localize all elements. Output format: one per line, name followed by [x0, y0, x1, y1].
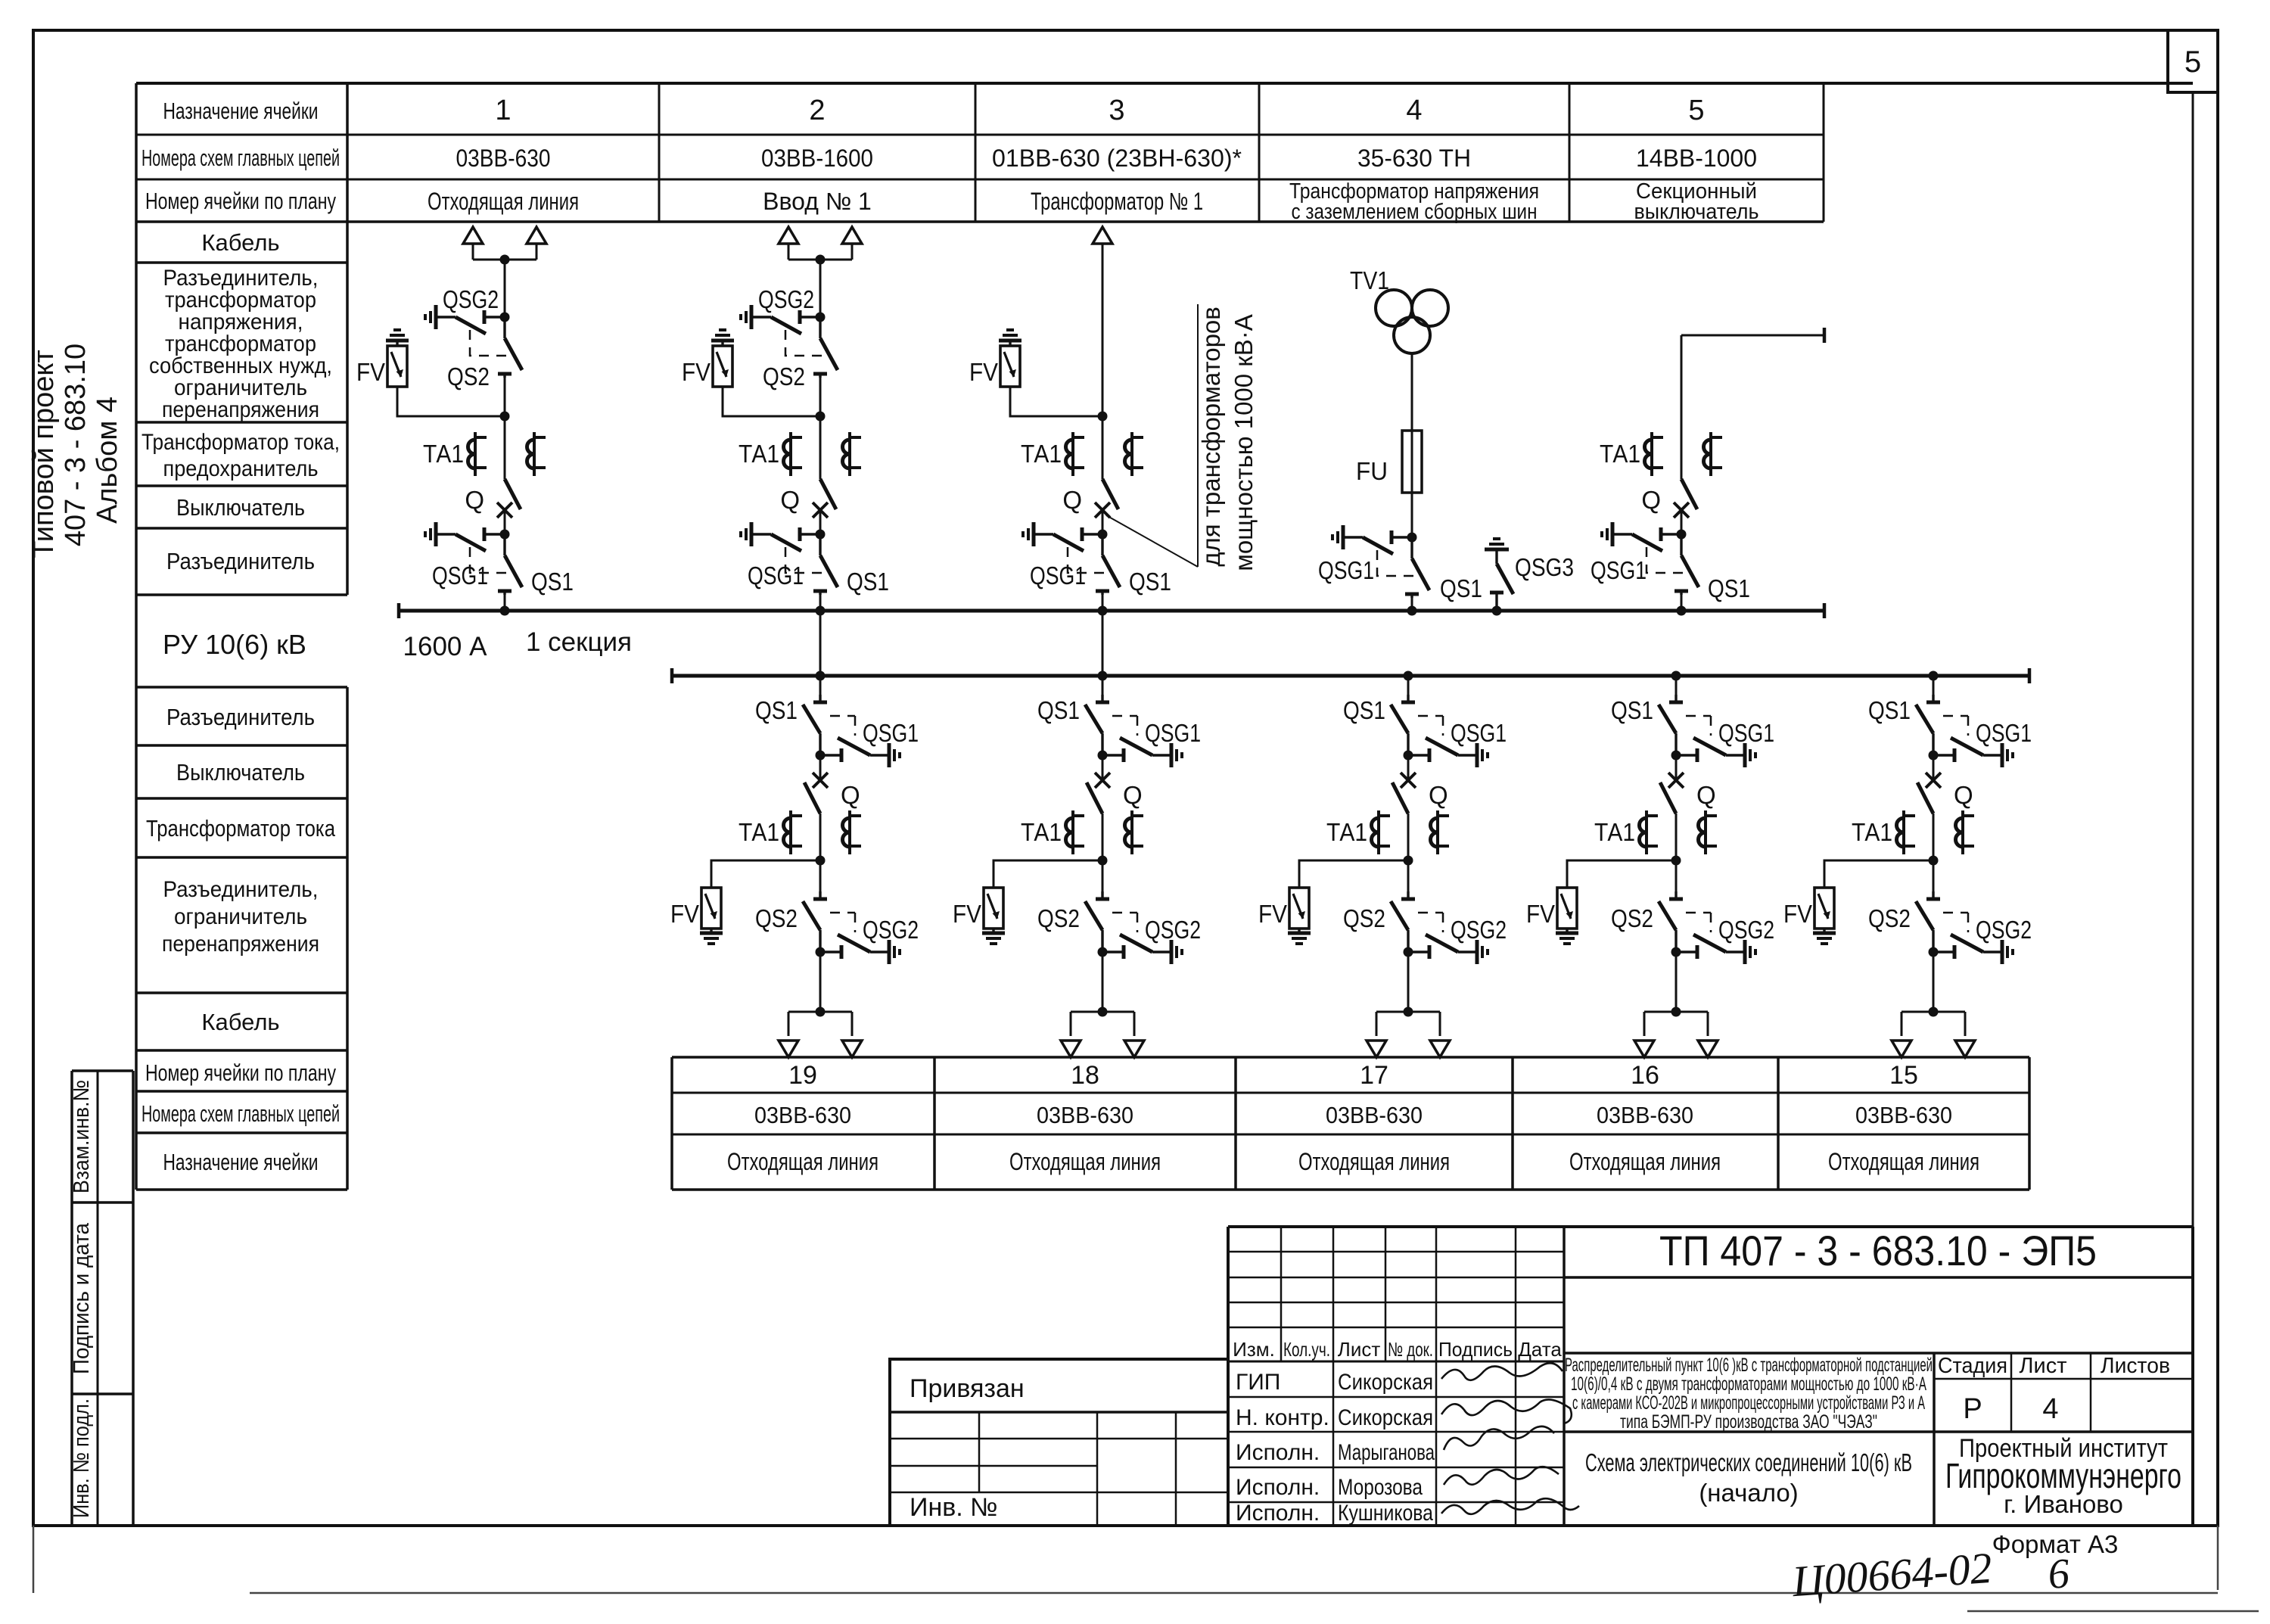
svg-text:Листов: Листов: [2101, 1354, 2170, 1378]
wire FV branch (cell 18): [994, 860, 1102, 888]
circuit breaker Q (cell 19): [804, 773, 828, 814]
node cable junction (cell 18): [1098, 1007, 1108, 1017]
svg-text:18: 18: [1071, 1061, 1099, 1090]
svg-text:Трансформатор тока,: Трансформатор тока,: [141, 430, 340, 455]
svg-text:Q: Q: [780, 486, 800, 514]
svg-text:QS2: QS2: [755, 904, 798, 932]
linked project box: [890, 1359, 1228, 1526]
svg-text:перенапряжения: перенапряжения: [162, 932, 319, 957]
cable arrows (cell 2): [779, 227, 798, 244]
svg-text:QSG1: QSG1: [432, 562, 488, 590]
svg-text:Н. контр.: Н. контр.: [1236, 1405, 1329, 1430]
svg-text:Отходящая линия: Отходящая линия: [727, 1148, 878, 1175]
svg-text:с камерами КСО-202В и микропро: с камерами КСО-202В и микропроцессорными…: [1572, 1392, 1925, 1414]
node FV junction (cell 18): [1098, 856, 1108, 866]
disconnector QS2 (cell 1): [498, 317, 522, 378]
node FV junction (cell 2): [816, 412, 826, 422]
svg-text:Кабель: Кабель: [201, 1009, 279, 1035]
svg-text:Номер ячейки по плану: Номер ячейки по плану: [145, 1059, 336, 1086]
node QSG1 junction (cell 5): [1677, 530, 1687, 540]
circuit breaker Q (cell 2): [813, 479, 836, 518]
node QSG1 junction (cell 2): [816, 530, 826, 540]
wire breaker to FV node (cell 17): [1407, 814, 1410, 860]
wire FV branch (cell 16): [1567, 860, 1676, 888]
circuit breaker Q (cell 3): [1095, 479, 1118, 518]
wire main drop (cell 1): [504, 260, 506, 317]
svg-text:QSG1: QSG1: [863, 719, 919, 747]
wire FV branch (cell 19): [711, 860, 820, 888]
svg-text:03ВВ-630: 03ВВ-630: [1597, 1102, 1693, 1128]
svg-text:FV: FV: [356, 358, 385, 386]
left margin boxes: [72, 1069, 133, 1072]
svg-text:03ВВ-630: 03ВВ-630: [1037, 1102, 1133, 1128]
node cable junction (cell 2): [816, 255, 826, 265]
disconnector QS1 (cell 4): [1405, 537, 1429, 598]
cable arrows (cell 17): [1367, 1041, 1386, 1057]
svg-text:QS2: QS2: [1868, 904, 1911, 932]
svg-text:QSG1: QSG1: [1030, 562, 1086, 590]
node FV junction (cell 16): [1671, 856, 1681, 866]
svg-text:ГИП: ГИП: [1236, 1370, 1280, 1395]
wire breaker to FV node (cell 18): [1102, 814, 1104, 860]
cable arrows (cell 15): [1892, 1041, 1911, 1057]
svg-text:10(6)/0,4 кВ с двумя трансформ: 10(6)/0,4 кВ с двумя трансформаторами мо…: [1571, 1374, 1926, 1395]
wire FV branch (cell 1): [397, 387, 505, 416]
earthing switch QSG1 (cell 2): [741, 522, 824, 573]
node bus connection (cell 4): [1407, 606, 1417, 616]
node FV junction (cell 1): [500, 412, 510, 422]
wire QSG2 to cable (cell 17): [1407, 952, 1410, 1012]
svg-text:РУ 10(6) кВ: РУ 10(6) кВ: [163, 629, 306, 660]
link terminator (cell 5): [1824, 328, 1825, 343]
wire FV branch (cell 3): [1010, 387, 1102, 416]
svg-text:407 - 3 - 683.10: 407 - 3 - 683.10: [60, 344, 92, 546]
svg-text:предохранитель: предохранитель: [163, 456, 319, 481]
node QSG1 junction (cell 17): [1404, 751, 1413, 761]
wire QS1 to bus (cell 5): [1681, 591, 1683, 611]
fuse FU (cell 4): [1402, 431, 1422, 493]
svg-text:Привязан: Привязан: [910, 1374, 1025, 1403]
svg-text:Q: Q: [841, 781, 860, 809]
svg-text:FV: FV: [1526, 900, 1555, 928]
wire node to breaker (cell 2): [819, 416, 822, 479]
svg-text:Назначение ячейки: Назначение ячейки: [163, 1149, 319, 1175]
node lower bus connection (cell 19): [816, 671, 826, 681]
svg-text:Номер ячейки по плану: Номер ячейки по плану: [145, 188, 336, 214]
svg-text:QSG2: QSG2: [443, 285, 499, 313]
section breaker link wire (cell 5): [1681, 334, 1824, 337]
svg-text:Подпись и дата: Подпись и дата: [70, 1222, 94, 1374]
node cable junction (cell 1): [500, 255, 510, 265]
wire cable header (cell 2): [788, 259, 852, 261]
svg-text:QSG1: QSG1: [1318, 556, 1374, 584]
svg-text:Отходящая линия: Отходящая линия: [1298, 1148, 1450, 1175]
svg-text:Кабель: Кабель: [201, 229, 279, 256]
svg-text:01ВВ-630 (23ВН-630)*: 01ВВ-630 (23ВН-630)*: [992, 145, 1242, 172]
disconnector QS1 (cell 2): [813, 534, 838, 595]
svg-text:FV: FV: [1783, 900, 1812, 928]
svg-text:15: 15: [1889, 1061, 1918, 1090]
wire breaker to FV node (cell 19): [819, 814, 822, 860]
svg-text:г. Иваново: г. Иваново: [2004, 1490, 2123, 1518]
svg-text:4: 4: [2042, 1393, 2058, 1425]
wire main drop (cell 2): [819, 260, 822, 317]
svg-text:TV1: TV1: [1350, 266, 1389, 294]
svg-text:ТА1: ТА1: [1600, 440, 1640, 468]
svg-text:QSG1: QSG1: [1591, 556, 1647, 584]
cable arrows (cell 19): [779, 1041, 798, 1057]
svg-text:QS1: QS1: [1868, 696, 1911, 724]
wire node to QS2 (cell 19): [819, 860, 822, 900]
disconnector QS1 (cell 15): [1933, 676, 1935, 702]
wire QSG2 to cable (cell 18): [1102, 952, 1104, 1012]
current transformer TA1 (cell 17): [1372, 810, 1391, 854]
svg-text:FV: FV: [670, 900, 699, 928]
node QSG1 junction (cell 15): [1929, 751, 1939, 761]
disconnector QS1 (cell 18): [1102, 676, 1104, 702]
earthing switch QSG2 (cell 18): [1102, 913, 1182, 964]
wire TV1 to fuse: [1411, 353, 1413, 431]
wire breaker to QSG1 (cell 1): [504, 510, 506, 534]
surge arrester FV (cell 18): [982, 888, 1005, 944]
svg-text:Отходящая линия: Отходящая линия: [428, 188, 579, 215]
svg-text:Кушникова: Кушникова: [1338, 1501, 1433, 1526]
wire node to breaker (cell 1): [504, 416, 506, 479]
node QSG2 junction (cell 1): [500, 313, 510, 322]
wire QS2 to FV node (cell 1): [504, 374, 506, 416]
svg-text:35-630 ТН: 35-630 ТН: [1357, 145, 1471, 172]
svg-text:Инв. № подл.: Инв. № подл.: [70, 1398, 94, 1518]
right margin line: [2192, 92, 2194, 1227]
node QSG2 junction (cell 19): [816, 947, 826, 957]
svg-text:3: 3: [1109, 95, 1124, 126]
top table grid: [136, 82, 2193, 85]
svg-text:ТА1: ТА1: [739, 440, 779, 468]
earthing switch QSG1 (cell 17): [1408, 716, 1488, 767]
surge arrester FV (cell 3): [999, 330, 1022, 387]
svg-text:QS1: QS1: [1129, 568, 1171, 596]
wire cable split (cell 16): [1644, 1011, 1708, 1013]
node QSG1 junction (cell 4): [1407, 533, 1417, 543]
wire QS2 to FV node (cell 2): [819, 374, 822, 416]
wire QSG2 to cable (cell 16): [1675, 952, 1678, 1012]
node FV junction (cell 17): [1404, 856, 1413, 866]
cable arrows (cell 1): [463, 227, 483, 244]
voltage transformer TV1 (cell 4): [1376, 290, 1412, 326]
svg-text:ТА1: ТА1: [1594, 818, 1635, 846]
svg-text:Отходящая линия: Отходящая линия: [1569, 1148, 1721, 1175]
disconnector QS1 (cell 17): [1407, 676, 1410, 702]
disconnector QS1 (cell 19): [819, 676, 822, 702]
svg-text:Кол.уч.: Кол.уч.: [1283, 1338, 1330, 1361]
svg-text:03ВВ-630: 03ВВ-630: [1855, 1102, 1952, 1128]
svg-text:типа БЭМП-РУ производства ЗАО: типа БЭМП-РУ производства ЗАО "ЧЭАЗ": [1620, 1411, 1877, 1433]
cable arrows (cell 16): [1634, 1041, 1654, 1057]
current transformer TA1 (cell 19): [784, 810, 803, 854]
wire FV branch (cell 2): [723, 387, 820, 416]
svg-text:QS2: QS2: [763, 362, 805, 390]
svg-text:QS1: QS1: [1611, 696, 1653, 724]
svg-text:Q: Q: [1123, 781, 1143, 809]
svg-text:03ВВ-630: 03ВВ-630: [456, 145, 551, 172]
node QSG2 junction (cell 16): [1671, 947, 1681, 957]
wire QS1 to bus (cell 2): [819, 591, 822, 611]
wire QSG1 to breaker (cell 15): [1933, 755, 1935, 780]
circuit breaker Q (cell 5): [1674, 479, 1697, 518]
node FV junction (cell 19): [816, 856, 826, 866]
node cable junction (cell 19): [816, 1007, 826, 1017]
svg-text:QSG1: QSG1: [1718, 719, 1774, 747]
earthing switch QSG1 (cell 19): [820, 716, 900, 767]
wire cable split (cell 18): [1071, 1011, 1134, 1013]
current transformer TA1 (cell 2): [784, 432, 803, 476]
node bus connection (cell 3): [1098, 606, 1108, 616]
circuit breaker Q (cell 1): [497, 479, 521, 518]
disconnector QS2 (cell 2): [813, 317, 838, 378]
wire node to breaker (cell 3): [1102, 416, 1104, 479]
svg-text:5: 5: [2184, 45, 2201, 79]
svg-text:Схема электрических соединений: Схема электрических соединений 10(6) кВ: [1585, 1448, 1912, 1476]
surge arrester FV (cell 19): [700, 888, 723, 944]
wire QSG2 to cable (cell 19): [819, 952, 822, 1012]
svg-text:ТА1: ТА1: [1021, 440, 1062, 468]
current transformer TA1 (cell 1): [468, 432, 487, 476]
svg-text:03ВВ-1600: 03ВВ-1600: [761, 145, 873, 172]
wire node to QS2 (cell 17): [1407, 860, 1410, 900]
svg-text:Отходящая линия: Отходящая линия: [1009, 1148, 1161, 1175]
wire cable split (cell 15): [1902, 1011, 1965, 1013]
svg-text:Номера схем главных цепей: Номера схем главных цепей: [141, 145, 340, 171]
node QSG1 junction (cell 18): [1098, 751, 1108, 761]
current transformer TA1 (cell 18): [1066, 810, 1085, 854]
svg-text:QSG2: QSG2: [1145, 916, 1201, 944]
svg-text:QSG1: QSG1: [1451, 719, 1507, 747]
svg-text:Отходящая линия: Отходящая линия: [1828, 1148, 1979, 1175]
svg-text:Q: Q: [1954, 781, 1973, 809]
svg-text:Альбом 4: Альбом 4: [92, 397, 123, 524]
bus 1 left terminator: [398, 603, 400, 618]
svg-text:4: 4: [1406, 95, 1422, 126]
svg-text:Q: Q: [1062, 486, 1082, 514]
svg-text:QS2: QS2: [1611, 904, 1653, 932]
surge arrester FV (cell 1): [386, 330, 409, 387]
bus 1 right terminator: [1824, 603, 1825, 618]
cable arrows (cell 18): [1061, 1041, 1081, 1057]
svg-text:QS1: QS1: [1440, 574, 1482, 602]
svg-text:ТА1: ТА1: [1326, 818, 1367, 846]
svg-text:QS2: QS2: [1037, 904, 1080, 932]
node cable junction (cell 17): [1404, 1007, 1413, 1017]
svg-text:Исполн.: Исполн.: [1236, 1475, 1320, 1500]
svg-text:Морозова: Морозова: [1338, 1475, 1423, 1500]
svg-text:16: 16: [1631, 1061, 1659, 1090]
svg-text:Трансформатор № 1: Трансформатор № 1: [1031, 188, 1203, 215]
wire main drop (cell 3): [1102, 244, 1104, 416]
svg-text:ТА1: ТА1: [739, 818, 779, 846]
svg-text:Типовой проект: Типовой проект: [28, 350, 60, 558]
svg-text:Разъединитель,: Разъединитель,: [163, 877, 319, 902]
wire breaker to FV node (cell 16): [1675, 814, 1678, 860]
node QSG2 junction (cell 15): [1929, 947, 1939, 957]
svg-text:мощностью 1000 кВ·А: мощностью 1000 кВ·А: [1230, 314, 1258, 571]
disconnector QS2 (cell 15): [1916, 891, 1940, 952]
node QSG2 junction (cell 17): [1404, 947, 1413, 957]
node QSG1 junction (cell 19): [816, 751, 826, 761]
svg-text:Разъединитель: Разъединитель: [166, 704, 315, 730]
svg-text:ТА1: ТА1: [1852, 818, 1892, 846]
disconnector QS2 (cell 16): [1659, 891, 1683, 952]
callout leader line (cell 3): [1106, 515, 1198, 567]
wire QSG1 to breaker (cell 18): [1102, 755, 1104, 780]
lower feeder bus: [672, 674, 2029, 678]
wire breaker to QSG1 (cell 3): [1102, 510, 1104, 534]
current transformer TA1 (cell 3): [1066, 432, 1085, 476]
circuit breaker Q (cell 17): [1392, 773, 1416, 814]
signature squiggles: [1441, 1363, 1563, 1380]
svg-text:выключатель: выключатель: [1634, 200, 1759, 224]
node FV junction (cell 3): [1098, 412, 1108, 422]
disconnector QS2 (cell 19): [803, 891, 827, 952]
current transformer TA1 (cell 5): [1645, 432, 1664, 476]
surge arrester FV (cell 15): [1813, 888, 1836, 944]
svg-text:с заземлением сборных шин: с заземлением сборных шин: [1292, 200, 1538, 224]
wire cable header (cell 1): [473, 259, 536, 261]
wire node to QS2 (cell 18): [1102, 860, 1104, 900]
svg-text:Сикорская: Сикорская: [1338, 1405, 1433, 1430]
node QSG1 junction (cell 16): [1671, 751, 1681, 761]
disconnector QS1 (cell 3): [1096, 534, 1120, 595]
svg-text:Разъединитель: Разъединитель: [166, 548, 315, 574]
svg-text:Q: Q: [1429, 781, 1448, 809]
svg-text:QS1: QS1: [1343, 696, 1385, 724]
circuit breaker Q (cell 18): [1087, 773, 1110, 814]
svg-text:03ВВ-630: 03ВВ-630: [754, 1102, 851, 1128]
svg-text:2: 2: [809, 95, 825, 126]
node QSG1 junction (cell 1): [500, 530, 510, 540]
wire fuse to QSG1 (cell 4): [1411, 493, 1413, 537]
svg-text:Сикорская: Сикорская: [1338, 1370, 1433, 1395]
earthing switch QSG1 (cell 4): [1332, 525, 1416, 576]
svg-text:FV: FV: [953, 900, 981, 928]
svg-text:ТА1: ТА1: [1021, 818, 1062, 846]
node lower bus connection (cell 18): [1098, 671, 1108, 681]
earthing switch QSG2 (cell 17): [1408, 913, 1488, 964]
circuit breaker Q (cell 15): [1917, 773, 1941, 814]
disconnector QS1 (cell 16): [1675, 676, 1678, 702]
svg-text:Номера схем главных цепей: Номера схем главных цепей: [141, 1100, 340, 1127]
wire cable split (cell 19): [788, 1011, 852, 1013]
circuit breaker Q (cell 16): [1660, 773, 1684, 814]
wire breaker to QSG1 (cell 5): [1681, 510, 1683, 534]
svg-text:(начало): (начало): [1699, 1479, 1798, 1507]
svg-text:QSG1: QSG1: [748, 562, 804, 590]
wire QSG1 to breaker (cell 16): [1675, 755, 1678, 780]
svg-text:Ввод № 1: Ввод № 1: [763, 188, 872, 215]
earthing switch QSG2 (cell 1): [425, 305, 508, 356]
svg-text:перенапряжения: перенапряжения: [162, 397, 319, 422]
wire QSG1 to breaker (cell 17): [1407, 755, 1410, 780]
svg-text:QSG2: QSG2: [1976, 916, 2032, 944]
lower bus right terminator: [2029, 668, 2030, 683]
cable arrow (cell 3): [1093, 227, 1112, 244]
svg-text:FV: FV: [1258, 900, 1287, 928]
svg-text:Q: Q: [1641, 486, 1661, 514]
svg-text:QSG2: QSG2: [1451, 916, 1507, 944]
svg-text:FV: FV: [969, 358, 998, 386]
svg-text:Распределительный пункт 10(6 ): Распределительный пункт 10(6 )кВ с транс…: [1565, 1355, 1933, 1376]
svg-text:1: 1: [495, 95, 511, 126]
svg-text:Исполн.: Исполн.: [1236, 1440, 1320, 1465]
bottom table grid: [670, 1057, 673, 1190]
title block grid: [1228, 1225, 2193, 1228]
wire QS1 to bus (cell 3): [1102, 591, 1104, 611]
wire breaker to QSG1 (cell 2): [819, 510, 822, 534]
svg-text:FU: FU: [1356, 457, 1388, 485]
node bus connection (cell 2): [816, 606, 826, 616]
node QSG2 junction (cell 2): [816, 313, 826, 322]
disconnector QS1 (cell 5): [1675, 534, 1699, 595]
wire QS1 to bus (cell 1): [504, 591, 506, 611]
sheet number box top right: [2168, 30, 2218, 92]
node cable junction (cell 15): [1929, 1007, 1939, 1017]
svg-text:Инв. №: Инв. №: [910, 1493, 998, 1522]
svg-text:QS1: QS1: [1037, 696, 1080, 724]
svg-text:6: 6: [2047, 1550, 2071, 1598]
svg-text:QS1: QS1: [531, 568, 574, 596]
svg-text:для трансформаторов: для трансформаторов: [1197, 306, 1225, 567]
disconnector QS2 (cell 17): [1391, 891, 1415, 952]
svg-text:Дата: Дата: [1518, 1338, 1562, 1361]
wire bus1 to lower bus link (cell 3 column): [1102, 611, 1104, 676]
svg-text:Q: Q: [1696, 781, 1716, 809]
svg-text:QS2: QS2: [1343, 904, 1385, 932]
earthing switch QSG2 (cell 16): [1676, 913, 1755, 964]
svg-text:№ док.: № док.: [1388, 1338, 1433, 1361]
svg-text:Q: Q: [465, 486, 484, 514]
earthing switch QSG1 (cell 1): [425, 522, 508, 573]
node lower bus connection (cell 16): [1671, 671, 1681, 681]
wire QSG2 to cable (cell 15): [1933, 952, 1935, 1012]
svg-text:Лист: Лист: [1338, 1338, 1381, 1361]
node cable junction (cell 16): [1671, 1007, 1681, 1017]
svg-text:QS1: QS1: [755, 696, 798, 724]
earthing switch QSG2 (cell 15): [1933, 913, 2013, 964]
svg-text:Подпись: Подпись: [1438, 1338, 1513, 1361]
earthing switch QSG1 (cell 3): [1023, 522, 1106, 573]
bus earthing switch QSG3: [1485, 539, 1513, 611]
earthing switch QSG2 (cell 2): [741, 305, 824, 356]
svg-text:Выключатель: Выключатель: [176, 759, 305, 786]
scan edge artifact bottom: [250, 1592, 2218, 1594]
earthing switch QSG1 (cell 15): [1933, 716, 2013, 767]
svg-text:Стадия: Стадия: [1938, 1354, 2007, 1378]
bus section 1 (1600 A): [399, 609, 1824, 613]
svg-text:ограничитель: ограничитель: [174, 904, 307, 929]
svg-text:14ВВ-1000: 14ВВ-1000: [1636, 145, 1757, 172]
disconnector QS2 (cell 18): [1085, 891, 1109, 952]
svg-text:FV: FV: [682, 358, 711, 386]
svg-text:1 секция: 1 секция: [526, 627, 632, 657]
earthing switch QSG1 (cell 5): [1602, 522, 1685, 573]
wire FV branch (cell 17): [1299, 860, 1408, 888]
svg-text:Трансформатор тока: Трансформатор тока: [146, 815, 336, 842]
svg-text:19: 19: [788, 1061, 817, 1090]
wire QSG1 to breaker (cell 19): [819, 755, 822, 780]
wire bus1 to lower bus link (cell 2 column): [819, 611, 822, 676]
svg-text:5: 5: [1688, 95, 1704, 126]
svg-text:03ВВ-630: 03ВВ-630: [1326, 1102, 1423, 1128]
svg-text:QS1: QS1: [1708, 574, 1750, 602]
